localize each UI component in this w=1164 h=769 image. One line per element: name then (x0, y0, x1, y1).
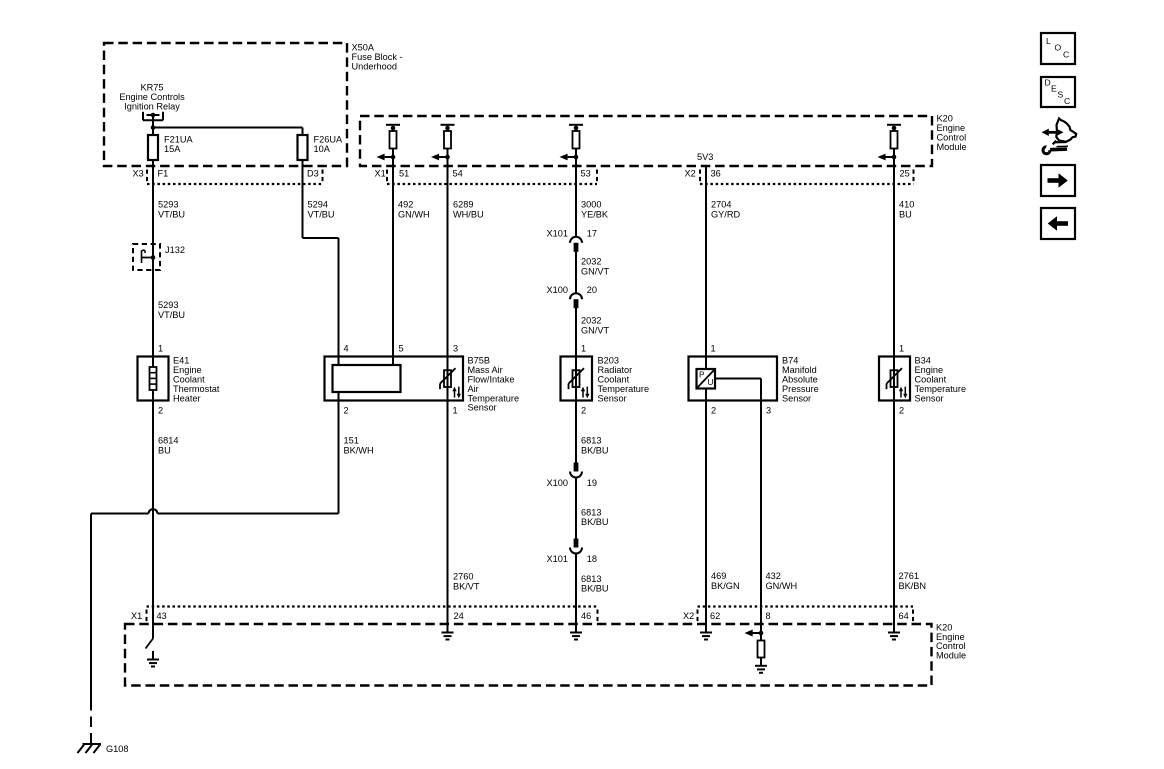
ECM internal ground at pin 24 (442, 633, 454, 640)
connector X1 pin 54 label (453, 169, 463, 179)
next page arrow icon (1041, 165, 1075, 196)
svg-text:1: 1 (158, 343, 163, 353)
splice pack J132 (133, 244, 160, 270)
svg-text:X2: X2 (685, 169, 696, 179)
svg-text:1: 1 (899, 343, 904, 353)
svg-text:C: C (1063, 49, 1069, 59)
svg-text:6814: 6814 (158, 436, 178, 446)
wire 469 BK/GN from B74 pin 2 to ECM pin 62 (705, 389, 707, 633)
connector X1 (bottom) name label (131, 611, 142, 621)
svg-text:Sensor: Sensor (468, 403, 497, 413)
ECM internal driver symbol above pin 25 (878, 125, 902, 166)
svg-text:24: 24 (454, 611, 464, 621)
svg-text:2: 2 (899, 405, 904, 415)
wire label 5293 VT/BU (upper) (158, 200, 185, 220)
wire 410 BU from ECM pin 25 to B34 pin 1 (893, 166, 895, 357)
svg-text:62: 62 (710, 611, 720, 621)
svg-text:P: P (699, 371, 705, 380)
svg-text:5V3: 5V3 (697, 152, 713, 162)
wire label 3000 YE/BK (581, 200, 609, 220)
svg-text:BU: BU (158, 446, 171, 456)
wire 2760 BK/VT from B75B pin 1 to ECM pin 24 (447, 401, 449, 633)
svg-text:43: 43 (157, 611, 167, 621)
sensor B74 pin 3 label (766, 405, 771, 415)
svg-text:3: 3 (766, 405, 771, 415)
connector X3 separators and dotted outline (147, 170, 323, 185)
5V3 reference label (697, 152, 713, 162)
sensor B74 pin 1 label (711, 343, 716, 353)
wire label 5294 VT/BU (308, 200, 335, 220)
svg-text:1: 1 (453, 405, 458, 415)
sensor B34 name label (915, 356, 967, 404)
connector X3 pin D3 label (307, 169, 319, 179)
svg-text:G108: G108 (106, 744, 128, 754)
svg-text:WH/BU: WH/BU (453, 210, 484, 220)
fuse F21UA (148, 135, 158, 160)
ECM internal resistor at pin 8 (758, 641, 765, 658)
svg-text:Sensor: Sensor (782, 393, 811, 403)
fuse F21UA label (164, 135, 193, 155)
svg-text:BK/BU: BK/BU (581, 446, 609, 456)
connector X1 pin 51 label (399, 169, 409, 179)
svg-text:BK/BN: BK/BN (899, 581, 927, 591)
ground G108 label (106, 744, 128, 754)
svg-text:BK/BU: BK/BU (581, 517, 609, 527)
svg-text:432: 432 (766, 571, 781, 581)
svg-text:Heater: Heater (173, 393, 201, 403)
ECM internal pull-up arrow at pin 8 (745, 630, 764, 637)
svg-text:2032: 2032 (581, 316, 601, 326)
wire label 5293 VT/BU (lower) (158, 300, 185, 320)
svg-text:BK/GN: BK/GN (711, 581, 740, 591)
ECM internal driver symbol above pin 54 (431, 125, 455, 166)
svg-text:53: 53 (581, 169, 591, 179)
svg-text:GY/RD: GY/RD (711, 210, 740, 220)
svg-text:25: 25 (900, 169, 910, 179)
svg-text:YE/BK: YE/BK (581, 210, 609, 220)
wire 2032 GN/VT between X101-17 and X100-20 (575, 251, 577, 293)
svg-text:17: 17 (587, 228, 597, 238)
wire 5294 VT/BU from fuse F26UA to B75B pin 4 (303, 160, 339, 365)
svg-text:E: E (1051, 84, 1057, 94)
svg-text:19: 19 (587, 478, 597, 488)
svg-text:VT/BU: VT/BU (308, 210, 335, 220)
sensor B75B pin 3 label (453, 343, 458, 353)
svg-text:20: 20 (587, 285, 597, 295)
svg-text:15A: 15A (164, 144, 181, 154)
inline connector X101 pin 18 symbol (570, 539, 582, 554)
svg-text:2: 2 (344, 405, 349, 415)
wire 2704 GY/RD from ECM pin 36 to B74 pin 1 (705, 184, 707, 369)
svg-text:2761: 2761 (899, 571, 919, 581)
previous page arrow icon (1041, 208, 1075, 239)
sensor B203 box (561, 357, 593, 401)
svg-text:J132: J132 (165, 245, 185, 255)
wire 492 GN/WH from ECM pin 51 to B75B pin 5 (392, 166, 394, 365)
svg-text:C: C (1064, 96, 1070, 106)
svg-text:Module: Module (936, 650, 966, 660)
sensor B74 name label (782, 356, 819, 404)
svg-text:8: 8 (766, 611, 771, 621)
wire 151 BK/WH from B75B pin 2 to ground net (338, 392, 340, 514)
svg-text:54: 54 (453, 169, 463, 179)
inline connector X101 pin 17 symbol (570, 237, 582, 252)
wire 5293 VT/BU from fuse F21UA to E41 pin 1 (152, 160, 154, 357)
svg-text:2760: 2760 (453, 572, 473, 582)
svg-text:GN/WH: GN/WH (766, 581, 798, 591)
connector X2 pin 62 label (710, 611, 720, 621)
svg-text:492: 492 (398, 200, 413, 210)
svg-text:64: 64 (899, 611, 909, 621)
svg-text:F1: F1 (158, 169, 169, 179)
ECM internal ground below switch (pin 43) (147, 651, 159, 667)
svg-text:L: L (1046, 36, 1051, 46)
ECM K20 top label (937, 114, 967, 153)
ECM internal driver symbol above pin 53 (560, 125, 584, 166)
sensor B74 pin 2 label (711, 405, 716, 415)
svg-text:151: 151 (344, 436, 359, 446)
wire label 492 GN/WH (398, 200, 430, 220)
svg-text:Ignition Relay: Ignition Relay (124, 102, 180, 112)
wire label 2704 GY/RD (711, 200, 740, 220)
svg-text:51: 51 (399, 169, 409, 179)
svg-text:D: D (1045, 77, 1051, 87)
sensor B75B pin 1 label (453, 405, 458, 415)
svg-text:U: U (708, 378, 714, 387)
wire 6814 BU from E41 pin 2 to ECM pin 43 (152, 401, 154, 639)
svg-text:X100: X100 (547, 285, 568, 295)
connector X2 (bottom) separators and dotted outline (698, 607, 914, 624)
svg-text:5: 5 (399, 343, 404, 353)
inline connector X100 pin 20 labels (547, 285, 598, 295)
wire label 151 BK/WH (344, 436, 374, 456)
sensor B74 pressure transducer symbol (697, 369, 716, 389)
ECM internal low-side switch at pin 43 (146, 639, 154, 649)
svg-text:5294: 5294 (308, 200, 328, 210)
ECM internal ground at pin 64 (888, 633, 900, 640)
wire label 2032 GN/VT (upper) (581, 257, 609, 277)
svg-text:BK/WH: BK/WH (344, 446, 374, 456)
svg-text:X1: X1 (375, 169, 386, 179)
svg-text:GN/WH: GN/WH (398, 210, 430, 220)
svg-text:2704: 2704 (711, 200, 731, 210)
sensor B34 pin 1 label (899, 343, 904, 353)
sensor B75B box (325, 357, 464, 401)
svg-text:46: 46 (581, 611, 591, 621)
svg-text:10A: 10A (314, 144, 331, 154)
sensor B75B pin 4 label (344, 343, 349, 353)
wire label 6289 WH/BU (453, 200, 484, 220)
wire 432 GN/WH from B74 pin 3 to ECM pin 8 (760, 401, 762, 641)
heater E41 name label (173, 356, 220, 404)
ECM internal ground at pin 62 (700, 633, 712, 640)
connector X1 (bottom) separators and dotted outline (147, 607, 598, 624)
svg-text:F26UA: F26UA (314, 135, 343, 145)
connector X2 (top) separators and dotted outline (700, 170, 914, 185)
svg-text:X2: X2 (683, 611, 694, 621)
wire label 432 GN/WH (766, 571, 798, 591)
svg-text:5293: 5293 (158, 200, 178, 210)
wire 2032 GN/VT from X100-20 to B203 pin 1 (575, 308, 577, 357)
wire label 6813 BK/BU (first) (581, 436, 609, 456)
wire label 2760 BK/VT (453, 572, 480, 592)
svg-text:X101: X101 (547, 228, 568, 238)
svg-text:Sensor: Sensor (915, 393, 944, 403)
chassis ground G108 symbol (78, 744, 102, 753)
svg-text:5293: 5293 (158, 300, 178, 310)
svg-text:6813: 6813 (581, 436, 601, 446)
sensor B203 pin 1 label (581, 343, 586, 353)
ground net wire with hop over wire 6814 (91, 509, 339, 513)
connector X2 (top) name label (685, 169, 696, 179)
svg-text:410: 410 (899, 200, 914, 210)
svg-text:1: 1 (711, 343, 716, 353)
fuse block X50A label (352, 43, 403, 72)
inline connector X101 pin 17 labels (547, 228, 598, 238)
connector X1 pin 43 label (157, 611, 167, 621)
svg-text:X101: X101 (547, 554, 568, 564)
svg-text:X1: X1 (131, 611, 142, 621)
sensor B75B IAT thermistor symbol (440, 357, 461, 401)
connector X2 pin 8 label (766, 611, 771, 621)
sensor B74 internal wire to pin 3 (715, 379, 761, 401)
connector X2 pin 64 label (899, 611, 909, 621)
connector X1 (top) separators and dotted outline (387, 170, 597, 185)
inline connector X100 pin 20 symbol (570, 293, 582, 308)
wire label 6814 BU (158, 436, 178, 456)
svg-text:1: 1 (581, 343, 586, 353)
ECM internal driver symbol above pin 51 (377, 125, 401, 166)
sensor B34 thermistor symbol (887, 357, 908, 401)
connector X3 pin F1 label (158, 169, 169, 179)
wire from relay KR75 to fuses F21UA and F26UA (151, 125, 303, 135)
svg-text:O: O (1055, 42, 1062, 52)
sensor B75B name label (468, 356, 520, 413)
connector X1 (top) name label (375, 169, 386, 179)
wire label 6813 BK/BU (third) (581, 574, 609, 593)
connector X1 pin 46 label (581, 611, 591, 621)
wire 6813 BK/BU from B203 pin 2 to X100-19 (575, 401, 577, 464)
svg-text:Engine: Engine (937, 123, 966, 133)
wire 5V3 feed inside ECM to pin 36 (705, 166, 707, 184)
DESC icon button (1041, 77, 1075, 107)
wire 2761 BK/BN from B34 pin 2 to ECM pin 64 (893, 401, 895, 633)
connector X2 pin 36 label (711, 169, 721, 179)
wire label 2761 BK/BN (899, 571, 927, 591)
svg-text:K20: K20 (937, 114, 953, 124)
fuse F26UA label (314, 135, 343, 155)
sensor B75B pin 5 label (399, 343, 404, 353)
ECM K20 bottom dashed box (125, 624, 932, 686)
wire 3000 YE/BK from ECM pin 53 to connector X101-17 (575, 166, 577, 237)
heater E41 pin 2 label (158, 405, 163, 415)
svg-text:Sensor: Sensor (598, 393, 627, 403)
svg-text:Module: Module (937, 142, 967, 152)
wire 6813 BK/BU between X100-19 and X101-18 (575, 478, 577, 539)
svg-text:GN/VT: GN/VT (581, 326, 609, 336)
svg-text:3000: 3000 (581, 200, 601, 210)
connector X2 pin 25 label (900, 169, 910, 179)
ECM internal ground at pin 46 (570, 633, 582, 640)
repair/service navigation icon (part outline, double arrow, wrench) (1042, 119, 1077, 156)
svg-text:VT/BU: VT/BU (158, 310, 185, 320)
svg-text:X3: X3 (133, 169, 144, 179)
svg-text:VT/BU: VT/BU (158, 210, 185, 220)
inline connector X101 pin 18 labels (547, 554, 598, 564)
inline connector X100 pin 19 symbol (570, 463, 582, 478)
fuse block X50A dashed box (104, 43, 347, 166)
ECM K20 top dashed box (360, 116, 932, 166)
svg-text:GN/VT: GN/VT (581, 267, 609, 277)
sensor B203 pin 2 label (581, 405, 586, 415)
relay KR75 contact symbol (143, 112, 163, 128)
connector X1 pin 53 label (581, 169, 591, 179)
svg-text:6289: 6289 (453, 200, 473, 210)
svg-text:2032: 2032 (581, 257, 601, 267)
wire label 410 BU (899, 200, 914, 220)
svg-text:BU: BU (899, 210, 912, 220)
svg-text:36: 36 (711, 169, 721, 179)
svg-text:BK/VT: BK/VT (453, 582, 480, 592)
wire drop to ground G108 (partly dashed) (90, 514, 92, 744)
wire 6289 WH/BU from ECM pin 54 to B75B pin 3 (447, 166, 449, 357)
connector X1 pin 24 label (454, 611, 464, 621)
ECM K20 bottom label (936, 623, 966, 661)
svg-text:BK/BU: BK/BU (581, 584, 609, 594)
svg-text:D3: D3 (307, 169, 319, 179)
sensor B75B pin 2 label (344, 405, 349, 415)
connector X2 (bottom) name label (683, 611, 694, 621)
svg-text:2: 2 (711, 405, 716, 415)
ECM internal ground below resistor (pin 8) (755, 658, 767, 673)
sensor B75B MAF element (333, 365, 401, 392)
svg-text:Underhood: Underhood (352, 62, 397, 72)
svg-text:2: 2 (581, 405, 586, 415)
sensor B203 thermistor symbol (569, 357, 590, 401)
svg-text:F21UA: F21UA (164, 135, 193, 145)
wire label 2032 GN/VT (lower) (581, 316, 609, 336)
wire label 6813 BK/BU (second) (581, 508, 609, 527)
heater E41 box (138, 357, 169, 401)
svg-text:469: 469 (711, 571, 726, 581)
svg-text:Control: Control (937, 133, 967, 143)
svg-text:18: 18 (587, 554, 597, 564)
svg-text:4: 4 (344, 343, 349, 353)
heater E41 element symbol (150, 357, 157, 401)
connector X3 name label (133, 169, 144, 179)
splice J132 label (165, 245, 185, 255)
relay KR75 label (119, 83, 185, 112)
inline connector X100 pin 19 labels (547, 478, 598, 488)
sensor B34 pin 2 label (899, 405, 904, 415)
svg-text:X100: X100 (547, 478, 568, 488)
wire label 469 BK/GN (711, 571, 740, 591)
svg-text:2: 2 (158, 405, 163, 415)
fuse F26UA (298, 135, 308, 160)
sensor B34 box (879, 357, 910, 401)
wire 6813 BK/BU from X101-18 to ECM pin 46 (575, 554, 577, 633)
LOC icon button (1041, 33, 1075, 64)
svg-text:S: S (1058, 90, 1064, 100)
svg-text:3: 3 (453, 343, 458, 353)
sensor B203 name label (598, 356, 650, 404)
sensor B74 box (689, 357, 778, 401)
heater E41 pin 1 label (158, 343, 163, 353)
